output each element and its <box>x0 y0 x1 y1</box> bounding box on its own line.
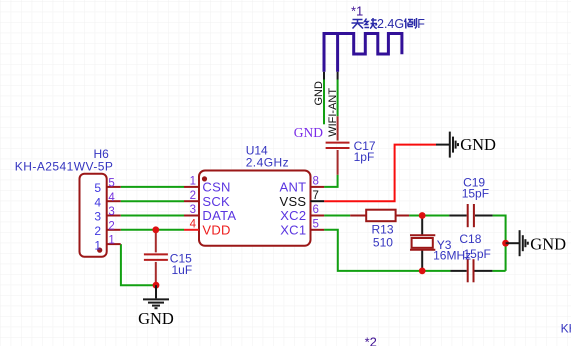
svg-text:2: 2 <box>94 224 101 238</box>
svg-text:F: F <box>417 17 425 31</box>
svg-text:1: 1 <box>190 176 196 188</box>
svg-text:XC1: XC1 <box>280 223 306 238</box>
svg-text:5: 5 <box>108 178 114 190</box>
svg-text:CSN: CSN <box>202 180 230 195</box>
svg-text:3: 3 <box>94 210 101 224</box>
svg-text:KH: KH <box>561 322 571 336</box>
svg-text:2: 2 <box>108 220 114 232</box>
svg-text:VDD: VDD <box>202 223 230 238</box>
svg-text:KH-A2541WV-5P: KH-A2541WV-5P <box>15 160 114 174</box>
svg-text:1: 1 <box>94 238 101 252</box>
svg-text:GND: GND <box>294 125 323 140</box>
svg-text:1pF: 1pF <box>354 150 375 164</box>
svg-text:1uF: 1uF <box>172 263 193 277</box>
svg-text:5: 5 <box>94 181 101 195</box>
svg-text:5: 5 <box>313 219 319 231</box>
svg-text:*1: *1 <box>351 4 363 19</box>
svg-text:6: 6 <box>313 204 319 216</box>
svg-text:2.4GHz: 2.4GHz <box>246 156 289 170</box>
svg-text:3: 3 <box>190 204 196 216</box>
svg-text:*2: *2 <box>365 334 377 346</box>
svg-text:GND: GND <box>313 81 325 106</box>
svg-text:2: 2 <box>190 190 196 202</box>
svg-text:GND: GND <box>530 235 566 254</box>
svg-text:4: 4 <box>108 192 115 204</box>
svg-text:VSS: VSS <box>279 194 306 209</box>
svg-text:8: 8 <box>313 176 319 188</box>
svg-text:4: 4 <box>190 219 197 231</box>
svg-text:SCK: SCK <box>202 194 230 209</box>
svg-text:XC2: XC2 <box>280 208 306 223</box>
svg-text:510: 510 <box>373 235 393 249</box>
svg-text:ANT: ANT <box>279 180 306 195</box>
svg-text:WIFI-ANT: WIFI-ANT <box>327 88 339 137</box>
svg-text:1: 1 <box>108 235 114 247</box>
svg-text:DATA: DATA <box>202 208 236 223</box>
svg-text:GND: GND <box>460 135 496 154</box>
svg-text:C18: C18 <box>459 232 481 246</box>
svg-text:7: 7 <box>313 190 319 202</box>
svg-text:3: 3 <box>108 206 114 218</box>
svg-text:15pF: 15pF <box>462 187 489 201</box>
svg-text:2.4G: 2.4G <box>377 17 404 31</box>
svg-text:4: 4 <box>94 195 101 209</box>
svg-text:GND: GND <box>138 309 174 328</box>
svg-text:16MHz: 16MHz <box>433 248 471 262</box>
